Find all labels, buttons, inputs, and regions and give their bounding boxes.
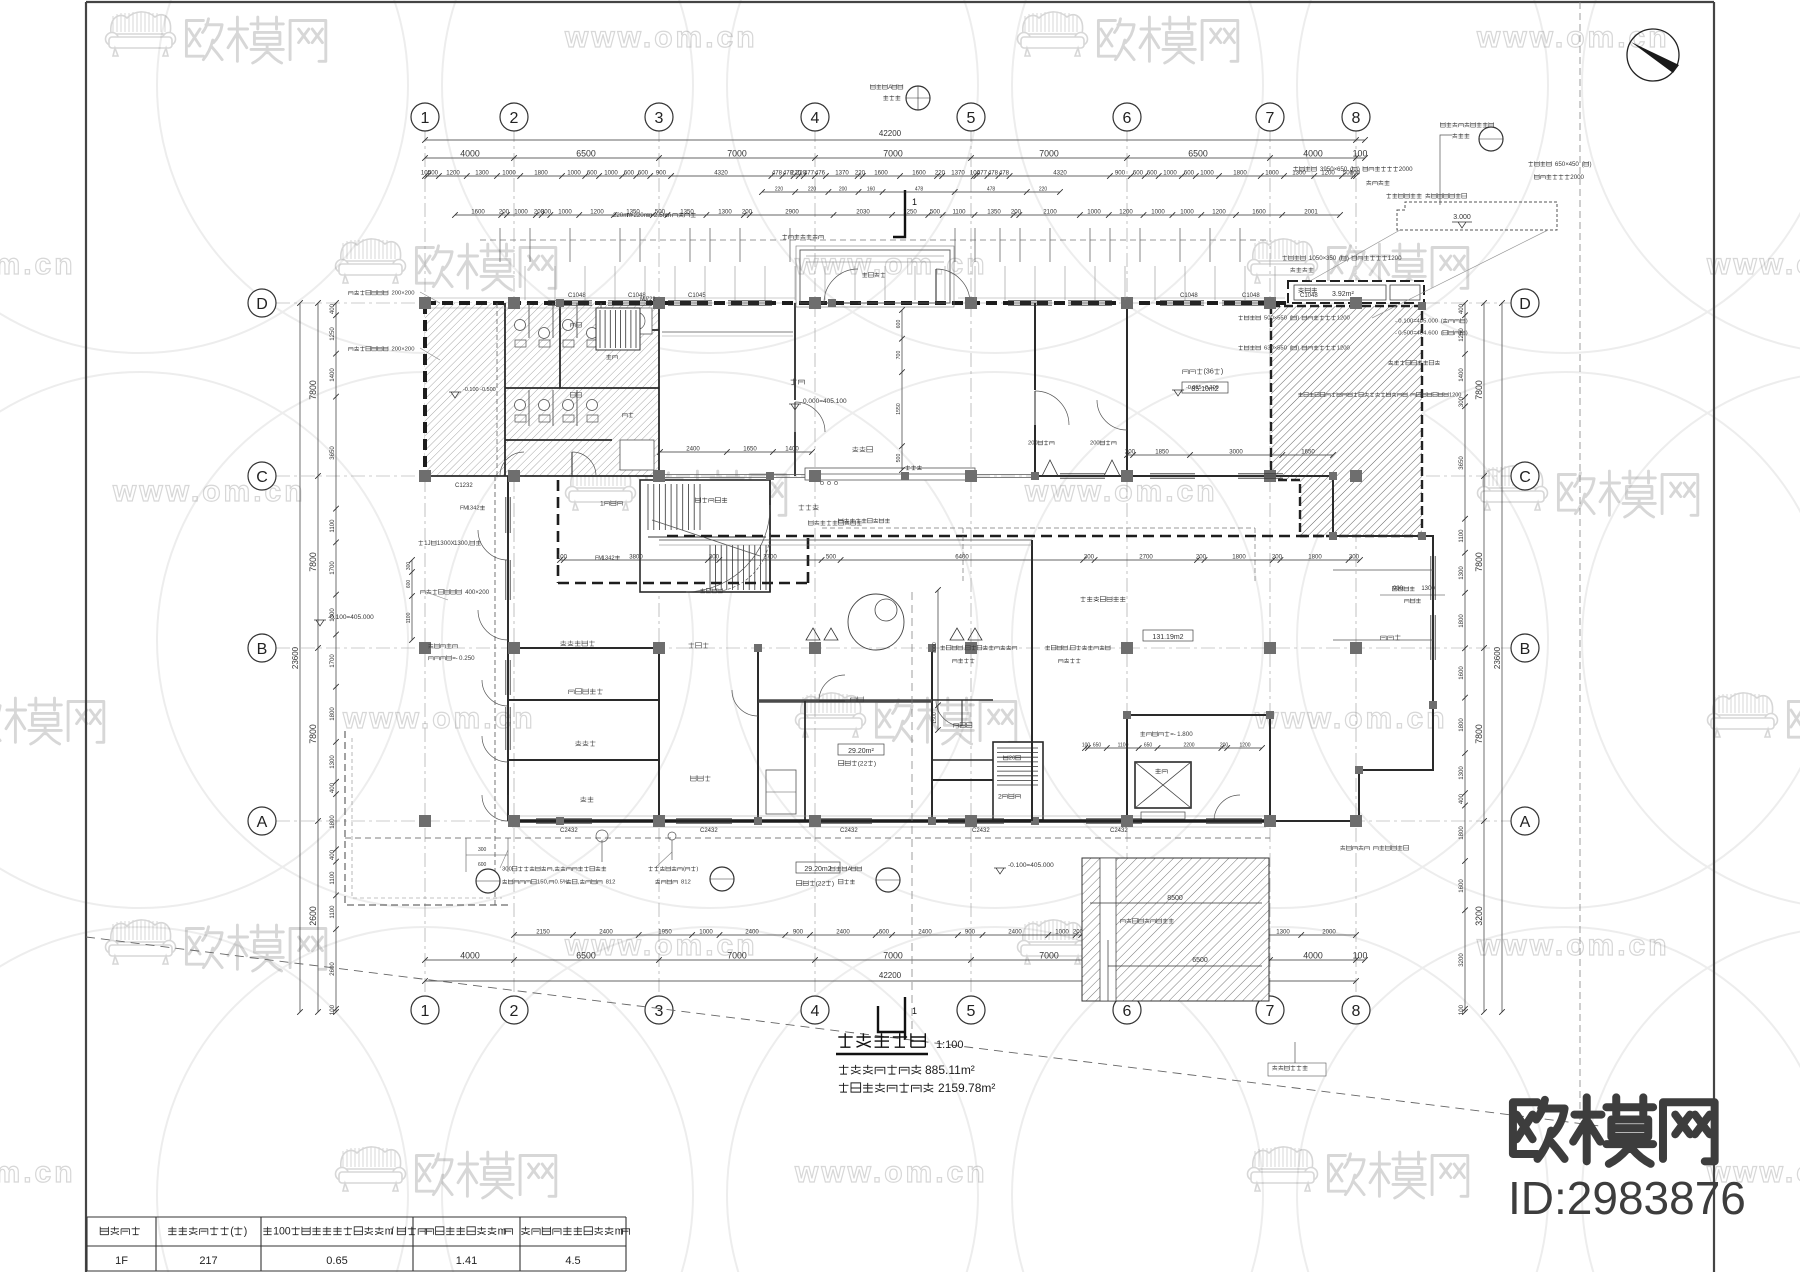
svg-text:C: C xyxy=(1519,469,1531,486)
svg-text:900: 900 xyxy=(793,929,804,936)
svg-text:1650: 1650 xyxy=(1301,449,1315,456)
svg-text:1200: 1200 xyxy=(590,209,604,216)
svg-text:2: 2 xyxy=(476,506,479,512)
svg-text:1100: 1100 xyxy=(952,209,966,216)
svg-text:(: ( xyxy=(1441,331,1443,337)
svg-text:1300: 1300 xyxy=(1421,586,1435,592)
grid bubbles left xyxy=(248,289,276,317)
svg-text:1200: 1200 xyxy=(446,170,460,177)
svg-text:600: 600 xyxy=(896,320,902,329)
svg-text:1600: 1600 xyxy=(1458,879,1465,893)
svg-text:1800: 1800 xyxy=(1458,826,1465,840)
svg-text:A: A xyxy=(1520,814,1531,831)
svg-text:650: 650 xyxy=(1144,743,1153,749)
svg-text:1300: 1300 xyxy=(1458,766,1465,780)
svg-text:220: 220 xyxy=(1039,187,1048,193)
svg-text:300: 300 xyxy=(1349,554,1360,561)
stair 3 (top-left small) xyxy=(596,308,640,350)
display wall assembly (row C center) xyxy=(805,468,975,480)
svg-text:1: 1 xyxy=(912,1006,917,1016)
svg-text:6500: 6500 xyxy=(1188,149,1208,159)
svg-text:1800: 1800 xyxy=(1233,170,1247,177)
svg-text:7000: 7000 xyxy=(883,149,903,159)
svg-text:m: m xyxy=(615,1225,624,1237)
windows on row C wall right part xyxy=(1060,474,1105,478)
svg-text:500: 500 xyxy=(428,170,439,177)
svg-text:C2432: C2432 xyxy=(560,828,578,834)
svg-text:): ) xyxy=(874,760,876,767)
svg-text:42200: 42200 xyxy=(879,129,902,138)
svg-text:1200: 1200 xyxy=(1119,209,1133,216)
svg-text:400: 400 xyxy=(329,849,336,860)
svg-text:8500: 8500 xyxy=(1167,895,1183,902)
svg-text:B: B xyxy=(1520,641,1531,658)
svg-text:0: 0 xyxy=(1034,441,1037,447)
main stair (mid-left) xyxy=(640,480,770,592)
svg-text:2: 2 xyxy=(652,296,655,302)
svg-text:2: 2 xyxy=(864,760,868,767)
wall sill thin lines bottom xyxy=(512,816,1266,827)
svg-text:131.19m2: 131.19m2 xyxy=(1152,634,1183,641)
svg-text:0: 0 xyxy=(1458,392,1461,398)
svg-text:1800: 1800 xyxy=(329,815,336,829)
toilet fixtures xyxy=(515,320,526,331)
small dim near left wall xyxy=(411,560,413,640)
svg-text:3800: 3800 xyxy=(629,554,643,561)
svg-text:1600: 1600 xyxy=(874,170,888,177)
stage circle xyxy=(848,594,904,650)
svg-text:600: 600 xyxy=(478,862,487,868)
svg-text:500: 500 xyxy=(896,454,902,463)
svg-text:0: 0 xyxy=(1189,731,1193,738)
svg-text:1000: 1000 xyxy=(558,209,572,216)
kitchen door xyxy=(732,690,758,716)
svg-text:478: 478 xyxy=(988,170,999,177)
column squares xyxy=(419,297,431,309)
svg-text:400: 400 xyxy=(329,303,336,314)
interior dims row C right xyxy=(1127,454,1333,456)
svg-text:100: 100 xyxy=(1353,149,1368,159)
svg-text:C1048: C1048 xyxy=(1300,293,1318,299)
svg-text:200: 200 xyxy=(742,209,753,216)
svg-text:7000: 7000 xyxy=(883,951,903,961)
svg-text:477: 477 xyxy=(804,170,815,177)
svg-text:4320: 4320 xyxy=(714,170,728,177)
svg-text:C2432: C2432 xyxy=(840,828,858,834)
callout circle top center xyxy=(906,86,930,110)
svg-text:1300: 1300 xyxy=(329,755,336,769)
svg-text:220: 220 xyxy=(775,187,784,193)
misc level marks xyxy=(314,620,326,626)
grid bubbles right xyxy=(1511,289,1539,317)
title: floor plan name xyxy=(838,1033,925,1047)
svg-text:220: 220 xyxy=(808,187,817,193)
svg-text:400: 400 xyxy=(329,782,336,793)
svg-text:): ) xyxy=(696,867,698,873)
svg-text:7000: 7000 xyxy=(1039,951,1059,961)
outer wall top (row D) bold dashed xyxy=(425,301,1288,305)
svg-text:2: 2 xyxy=(611,556,614,562)
svg-text:-: - xyxy=(1395,319,1397,325)
svg-text:300: 300 xyxy=(709,554,720,561)
svg-text:478: 478 xyxy=(999,170,1010,177)
svg-text:): ) xyxy=(832,880,834,887)
svg-text:1.41: 1.41 xyxy=(456,1255,477,1267)
left wall of toilet block xyxy=(423,303,427,476)
svg-text:900: 900 xyxy=(656,170,667,177)
svg-text:1:100: 1:100 xyxy=(936,1039,964,1051)
svg-text:500: 500 xyxy=(826,554,837,561)
evacuation table xyxy=(87,1217,626,1271)
svg-text:-0.100=405.000: -0.100=405.000 xyxy=(1008,862,1054,869)
section mark top xyxy=(893,190,905,237)
north arrow xyxy=(1627,29,1679,81)
svg-text:1550: 1550 xyxy=(896,403,902,415)
svg-text:29.20m2: 29.20m2 xyxy=(804,866,831,873)
svg-text:1000: 1000 xyxy=(1151,209,1165,216)
svg-text:J: J xyxy=(428,540,431,547)
svg-text:2600: 2600 xyxy=(329,962,336,976)
svg-text:1: 1 xyxy=(421,110,430,127)
svg-text:1200: 1200 xyxy=(1212,209,1226,216)
svg-text:0: 0 xyxy=(1333,255,1337,262)
svg-text:200: 200 xyxy=(499,209,510,216)
svg-text:478: 478 xyxy=(772,170,783,177)
svg-text:42200: 42200 xyxy=(879,971,902,980)
kitchen partition and counter xyxy=(804,701,806,821)
far right rooms xyxy=(1333,536,1433,705)
svg-text:): ) xyxy=(1466,331,1468,337)
svg-text:0: 0 xyxy=(1409,166,1413,173)
svg-text:600: 600 xyxy=(624,170,635,177)
svg-text:0: 0 xyxy=(486,589,490,596)
svg-text:(: ( xyxy=(1290,316,1292,322)
svg-text:2400: 2400 xyxy=(686,446,700,453)
windows on left wall xyxy=(506,497,510,533)
svg-text:ID:2983876: ID:2983876 xyxy=(1508,1172,1746,1224)
underground garage outline dashed bold xyxy=(558,536,1333,583)
svg-text:2900: 2900 xyxy=(785,209,799,216)
svg-text:0: 0 xyxy=(1581,174,1585,181)
svg-text:(: ( xyxy=(1441,319,1443,325)
svg-text:1100: 1100 xyxy=(406,612,412,623)
svg-text:1250: 1250 xyxy=(329,327,336,341)
kitchen walls xyxy=(758,648,932,821)
svg-text:7000: 7000 xyxy=(727,149,747,159)
svg-text:1600: 1600 xyxy=(1458,666,1465,680)
svg-text:600: 600 xyxy=(1147,170,1158,177)
svg-text:1000: 1000 xyxy=(1180,209,1194,216)
svg-text:1: 1 xyxy=(912,197,917,207)
svg-text:600: 600 xyxy=(1133,170,1144,177)
svg-text:): ) xyxy=(1297,346,1299,352)
corridor thin lines row C xyxy=(659,539,1032,541)
svg-text:7800: 7800 xyxy=(1474,552,1484,572)
area text lines xyxy=(839,1065,921,1074)
svg-text:C1232: C1232 xyxy=(455,483,473,489)
svg-text:1000: 1000 xyxy=(1265,170,1279,177)
right dimension lines xyxy=(1464,303,1466,1012)
svg-text:1300: 1300 xyxy=(475,170,489,177)
svg-text:2: 2 xyxy=(822,880,826,887)
svg-text:1400: 1400 xyxy=(1458,368,1465,382)
svg-text:0: 0 xyxy=(1575,161,1579,168)
bottom hatched canopy rect xyxy=(1082,858,1269,1001)
svg-text:500: 500 xyxy=(930,209,941,216)
svg-text:1600: 1600 xyxy=(471,209,485,216)
svg-text:1370: 1370 xyxy=(951,170,965,177)
svg-text:600: 600 xyxy=(638,170,649,177)
rooms right of hall: walls xyxy=(1126,303,1128,476)
svg-text:1000: 1000 xyxy=(1087,209,1101,216)
svg-text:m: m xyxy=(666,212,671,219)
svg-text:1350: 1350 xyxy=(680,209,694,216)
svg-text:(: ( xyxy=(230,1225,234,1237)
svg-text:3: 3 xyxy=(655,110,664,127)
svg-text:7000: 7000 xyxy=(932,642,938,654)
svg-text:3000: 3000 xyxy=(1229,449,1243,456)
svg-text:1500: 1500 xyxy=(932,712,938,724)
svg-text:6500: 6500 xyxy=(576,149,596,159)
svg-text:300: 300 xyxy=(406,562,412,571)
grid bubbles top xyxy=(411,103,439,131)
svg-text:C2432: C2432 xyxy=(972,828,990,834)
svg-text:1650: 1650 xyxy=(743,446,757,453)
svg-text:2400: 2400 xyxy=(918,929,932,936)
svg-text:1100: 1100 xyxy=(329,871,336,885)
svg-text:5: 5 xyxy=(967,1003,976,1020)
extra detail lines top band xyxy=(480,239,1270,241)
svg-text:7: 7 xyxy=(1266,110,1275,127)
svg-text:-: - xyxy=(456,655,458,662)
toilet block inner walls xyxy=(425,303,659,476)
mid walls xyxy=(1031,540,1033,740)
svg-text:7000: 7000 xyxy=(1039,149,1059,159)
svg-text:600: 600 xyxy=(406,580,412,589)
svg-text:0: 0 xyxy=(285,1225,291,1237)
svg-text:,: , xyxy=(468,540,470,547)
svg-text:1350: 1350 xyxy=(987,209,1001,216)
svg-text:2: 2 xyxy=(998,793,1002,800)
svg-text:1800: 1800 xyxy=(534,170,548,177)
svg-text:3.000: 3.000 xyxy=(1453,214,1471,221)
svg-text:1800: 1800 xyxy=(329,707,336,721)
svg-text:m: m xyxy=(498,1225,507,1237)
svg-text:2: 2 xyxy=(510,110,519,127)
svg-text:7800: 7800 xyxy=(308,724,318,744)
svg-text:29.20m²: 29.20m² xyxy=(848,748,874,755)
handrail arcs near main stair xyxy=(710,530,770,592)
svg-text:): ) xyxy=(1221,367,1223,376)
toilet stall partitions xyxy=(529,303,601,426)
svg-text:478: 478 xyxy=(987,187,996,193)
leader lines top-left annotations xyxy=(420,292,672,868)
toilet block hatch (top-left) xyxy=(425,303,659,476)
svg-text:1000: 1000 xyxy=(699,929,713,936)
svg-text:478: 478 xyxy=(915,187,924,193)
svg-text:600: 600 xyxy=(587,170,598,177)
svg-text:200: 200 xyxy=(1011,209,1022,216)
svg-text:2400: 2400 xyxy=(599,929,613,936)
svg-text:2: 2 xyxy=(688,880,691,886)
svg-text:6400: 6400 xyxy=(955,554,969,561)
svg-text:-: - xyxy=(1174,731,1176,738)
svg-text:1700: 1700 xyxy=(329,654,336,668)
grid bubbles bottom xyxy=(411,996,439,1024)
large hatched terrace (top-right) xyxy=(1271,306,1422,536)
below-wall small dims xyxy=(466,838,508,872)
svg-text:(: ( xyxy=(683,867,685,873)
svg-text:1100: 1100 xyxy=(1118,743,1129,749)
svg-text:2200: 2200 xyxy=(1183,743,1194,749)
extra walls bottom band xyxy=(932,740,1032,821)
svg-text:1700: 1700 xyxy=(329,561,336,575)
svg-text:1000: 1000 xyxy=(1163,170,1177,177)
svg-text:1800: 1800 xyxy=(1232,554,1246,561)
svg-text:A: A xyxy=(848,867,852,873)
svg-text:1300: 1300 xyxy=(1458,566,1465,580)
svg-text:4000: 4000 xyxy=(1303,149,1323,159)
svg-text:2400: 2400 xyxy=(745,929,759,936)
gallery corridor wall xyxy=(794,303,796,476)
svg-text:1100: 1100 xyxy=(1458,529,1465,543)
svg-text:7000: 7000 xyxy=(727,951,747,961)
svg-text:1000: 1000 xyxy=(604,170,618,177)
stair 2 xyxy=(993,742,1043,820)
svg-text:7: 7 xyxy=(1266,1003,1275,1020)
svg-text:6500: 6500 xyxy=(576,951,596,961)
svg-text:2: 2 xyxy=(612,880,615,886)
svg-text:3: 3 xyxy=(655,1003,664,1020)
svg-text:700: 700 xyxy=(896,351,902,360)
svg-text:2100: 2100 xyxy=(1043,209,1057,216)
svg-text:23600: 23600 xyxy=(1493,646,1502,669)
svg-text:1400: 1400 xyxy=(785,446,799,453)
svg-text:1200: 1200 xyxy=(1239,743,1250,749)
svg-text:3650: 3650 xyxy=(329,446,336,460)
bottom-left service yard dashed boundary xyxy=(345,731,508,905)
left dimension lines xyxy=(335,303,337,1012)
svg-text:): ) xyxy=(1590,161,1592,168)
svg-text:4.5: 4.5 xyxy=(565,1255,580,1267)
svg-text:1: 1 xyxy=(421,1003,430,1020)
vertical dashed reference line right xyxy=(1579,2,1581,1125)
svg-text:2001: 2001 xyxy=(1304,209,1318,216)
svg-text:/: / xyxy=(391,1225,394,1237)
svg-text:0: 0 xyxy=(1096,441,1099,447)
svg-text:300: 300 xyxy=(478,847,487,853)
svg-text:600: 600 xyxy=(879,929,890,936)
svg-text:A: A xyxy=(257,814,268,831)
svg-text:4000: 4000 xyxy=(1303,951,1323,961)
svg-text:7800: 7800 xyxy=(308,552,318,572)
svg-text:7800: 7800 xyxy=(308,380,318,400)
row C wall (top band bottom) xyxy=(659,475,1035,478)
svg-text:1000: 1000 xyxy=(567,170,581,177)
area label boxes xyxy=(1182,382,1228,393)
svg-text:200: 200 xyxy=(839,187,848,193)
svg-text:400: 400 xyxy=(1458,303,1465,314)
svg-text:300: 300 xyxy=(541,209,552,216)
svg-text:4000: 4000 xyxy=(460,149,480,159)
svg-text:1600: 1600 xyxy=(1252,209,1266,216)
svg-text:D: D xyxy=(256,296,268,313)
svg-text:200: 200 xyxy=(1272,554,1283,561)
svg-text:4320: 4320 xyxy=(1053,170,1067,177)
svg-text:6: 6 xyxy=(1210,367,1214,376)
svg-text:1000: 1000 xyxy=(514,209,528,216)
svg-text:-0.015 -0.300: -0.015 -0.300 xyxy=(1186,385,1219,391)
left outer wall rows C-B xyxy=(507,476,509,648)
svg-text:2400: 2400 xyxy=(836,929,850,936)
svg-text:600: 600 xyxy=(1184,170,1195,177)
section cut dashed vertical center xyxy=(911,592,913,1032)
svg-text:220: 220 xyxy=(855,170,866,177)
svg-text:200: 200 xyxy=(1125,449,1136,456)
svg-text:400: 400 xyxy=(1458,793,1465,804)
svg-text:3650: 3650 xyxy=(1458,456,1465,470)
callout circle top right xyxy=(1479,127,1503,151)
svg-text:1950: 1950 xyxy=(658,929,672,936)
svg-text:2159.78m²: 2159.78m² xyxy=(938,1081,995,1095)
svg-text:): ) xyxy=(1358,166,1360,173)
svg-text:): ) xyxy=(244,1225,248,1237)
svg-text:7800: 7800 xyxy=(1474,724,1484,744)
svg-text:100: 100 xyxy=(1353,951,1368,961)
svg-text:3200: 3200 xyxy=(1458,953,1465,967)
svg-text:C2432: C2432 xyxy=(700,828,718,834)
svg-text:0: 0 xyxy=(1398,255,1402,262)
svg-text:1600: 1600 xyxy=(912,170,926,177)
svg-text:-0.100=405.000: -0.100=405.000 xyxy=(328,614,374,621)
svg-text:2030: 2030 xyxy=(856,209,870,216)
annotation texts layer xyxy=(870,84,902,89)
right utility block with elevator xyxy=(1127,715,1270,821)
svg-text:1100: 1100 xyxy=(329,519,336,533)
svg-text:6: 6 xyxy=(1123,1003,1132,1020)
svg-text:8: 8 xyxy=(1352,110,1361,127)
svg-text:): ) xyxy=(1347,255,1349,262)
svg-text:2150: 2150 xyxy=(536,929,550,936)
svg-text:3200: 3200 xyxy=(1474,906,1484,926)
svg-text:1300: 1300 xyxy=(718,209,732,216)
svg-text:1000: 1000 xyxy=(1055,929,1069,936)
svg-text:6500: 6500 xyxy=(1192,957,1208,964)
svg-text:300: 300 xyxy=(1084,554,1095,561)
svg-text:%: % xyxy=(563,880,569,886)
svg-text:200: 200 xyxy=(1220,743,1229,749)
svg-text:5: 5 xyxy=(967,110,976,127)
svg-text:): ) xyxy=(1297,316,1299,322)
svg-text:0: 0 xyxy=(1344,166,1348,173)
svg-text:0.65: 0.65 xyxy=(326,1255,347,1267)
svg-text:7800: 7800 xyxy=(1474,380,1484,400)
svg-text:1370: 1370 xyxy=(835,170,849,177)
watermark circles xyxy=(0,0,408,353)
svg-text:-: - xyxy=(1395,331,1397,337)
svg-text:217: 217 xyxy=(199,1255,217,1267)
wall sill thin lines top xyxy=(430,297,1285,299)
section mark bottom xyxy=(878,997,905,1040)
canopy outline top-right xyxy=(1397,202,1557,230)
callout circles bottom xyxy=(476,869,500,893)
exhaust shaft block top-right xyxy=(1288,281,1424,303)
svg-text:477: 477 xyxy=(977,170,988,177)
svg-text:2600: 2600 xyxy=(308,906,318,926)
svg-text:2: 2 xyxy=(510,1003,519,1020)
svg-text:1800: 1800 xyxy=(1308,554,1322,561)
svg-text:1800: 1800 xyxy=(1458,718,1465,732)
